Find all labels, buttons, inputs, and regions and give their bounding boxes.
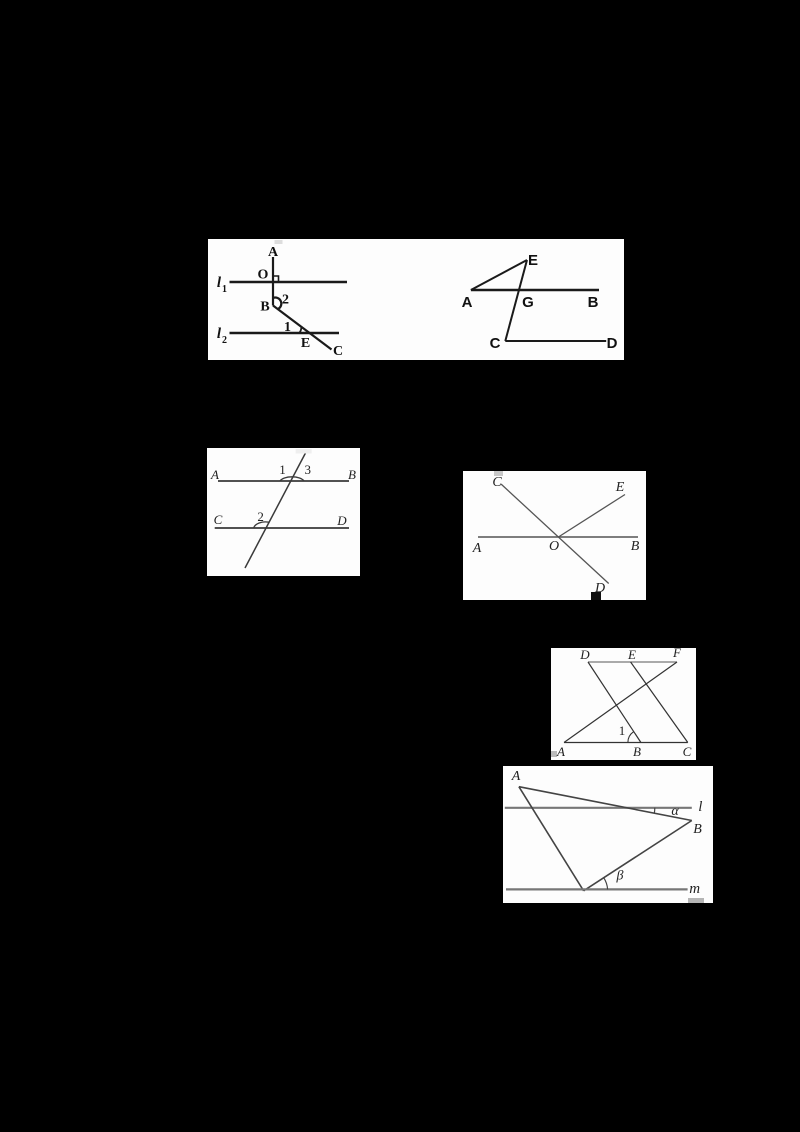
side AV [519,787,584,891]
svg-text:A: A [511,769,521,784]
fig1b: segment AE [471,260,527,290]
arc at bottom crossing [254,522,269,528]
svg-text:C: C [214,512,223,527]
svg-text:β: β [616,869,624,884]
line AB [478,536,638,538]
svg-text:1: 1 [619,723,626,738]
segment EC [631,662,688,743]
figure box 5: triangle between lines l and m [503,766,713,903]
svg-text:O: O [258,268,269,283]
line l [505,807,692,809]
svg-text:B: B [631,539,640,554]
svg-text:C: C [683,744,692,759]
line m [506,888,688,890]
line AB [218,480,349,482]
line AB [471,289,599,292]
svg-text:2: 2 [222,335,227,346]
svg-text:E: E [615,480,625,495]
svg-text:D: D [579,648,590,662]
side BV [584,821,692,891]
segment CD [505,340,606,342]
arc at top crossing [280,477,304,481]
svg-text:D: D [336,513,347,528]
segment BC [273,306,332,350]
artifact square above A [275,240,283,244]
angle 2 arc at B [273,298,281,310]
svg-text:B: B [348,467,356,482]
figure box 3: lines through O with rays C,E,D [463,471,646,600]
svg-text:E: E [301,336,310,351]
svg-text:D: D [607,335,618,352]
svg-text:1: 1 [279,462,286,477]
line CD [501,484,609,584]
svg-text:E: E [627,648,636,662]
svg-text:A: A [472,541,482,556]
angle 1 arc at E [299,327,301,333]
artifact gray square near C [494,471,503,476]
svg-text:O: O [549,539,559,554]
figure box 4: trapezoid DEF / ABC with crossing segments [551,648,696,760]
svg-text:B: B [588,294,599,311]
artifact square at top [296,449,312,454]
svg-text:C: C [492,475,502,490]
ray OE [558,495,625,538]
svg-text:2: 2 [257,509,264,524]
svg-text:3: 3 [304,462,311,477]
black square artifact near D [591,592,601,600]
svg-text:2: 2 [282,293,289,308]
segment AF [564,662,677,743]
figure box 1: parallel lines l1,l2 and figure AGB [208,239,624,360]
segment EC through G [505,260,527,341]
svg-text:A: A [462,294,473,311]
svg-text:1: 1 [222,284,227,295]
svg-text:C: C [490,335,501,352]
ray AO vertical wire [272,257,274,306]
figure box 2: parallel lines AB,CD with transversal [207,448,360,576]
svg-text:l: l [698,799,702,815]
svg-text:A: A [556,744,565,759]
svg-text:α: α [671,804,679,819]
svg-text:A: A [210,467,219,482]
svg-text:B: B [693,822,702,837]
svg-text:B: B [260,300,269,315]
angle beta arc [604,878,608,890]
svg-text:B: B [633,744,641,759]
side AB [519,787,692,821]
svg-text:C: C [333,344,343,359]
angle 1 arc at B [628,732,634,743]
line l2 [230,332,340,334]
gray square artifact near m [688,898,704,903]
line CD [215,527,349,529]
svg-text:G: G [522,294,534,311]
line DF [588,661,677,663]
gray square artifact near A [551,751,557,757]
angle alpha arc [653,808,656,813]
svg-text:1: 1 [284,320,291,335]
segment DB [588,662,641,743]
line l1 [230,281,348,283]
right-angle mark at O [273,276,279,282]
svg-text:F: F [672,648,682,660]
line AC [564,742,688,744]
svg-text:m: m [689,881,700,897]
transversal [245,453,306,568]
svg-text:E: E [528,252,538,269]
